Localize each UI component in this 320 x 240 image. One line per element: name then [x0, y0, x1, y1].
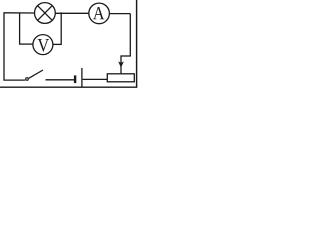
- voltmeter branch: right horizontal wire: [53, 43, 61, 45]
- wire: right corner to wiper shaft: [121, 55, 131, 57]
- switch S pivot circle: [26, 78, 29, 81]
- voltmeter V circle: [33, 35, 53, 55]
- rheostat R body box: [107, 74, 134, 82]
- wire: switch to battery: [46, 79, 75, 81]
- voltmeter branch: right vertical wire to top: [60, 13, 63, 45]
- wire: ammeter to right corner: [110, 13, 131, 15]
- lamp L cross line 2: [38, 6, 53, 21]
- rheostat wiper arrowhead: [118, 62, 124, 68]
- wire: left side vertical: [3, 12, 5, 80]
- rheostat wiper arrow shaft: [120, 55, 122, 73]
- wire: bottom-left to switch pivot: [3, 79, 25, 81]
- battery cell: long thin plate: [81, 68, 83, 87]
- ammeter A circle: [89, 3, 110, 24]
- lamp L circle: [35, 3, 56, 24]
- wire: top-left from lamp to left corner: [4, 12, 34, 14]
- voltmeter label V: [38, 39, 49, 52]
- wire: battery to rheostat box: [83, 78, 108, 80]
- wire: lamp to ammeter: [56, 12, 89, 14]
- voltmeter branch: left horizontal wire: [19, 43, 33, 45]
- ammeter label A: [93, 7, 104, 19]
- switch S lever (open): [29, 70, 43, 78]
- voltmeter branch: left tap vertical wire: [19, 13, 21, 44]
- wire: right side vertical + top corner: [129, 14, 131, 56]
- battery cell: short thick plate: [74, 75, 76, 83]
- lamp L cross line 1: [38, 6, 53, 21]
